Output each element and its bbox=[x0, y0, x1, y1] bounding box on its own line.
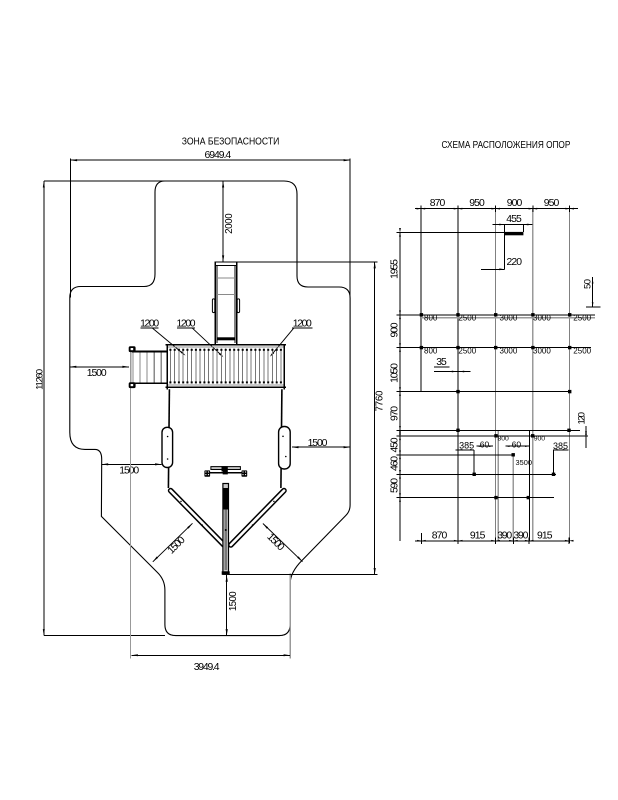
V beam left bbox=[171, 491, 224, 545]
V beam right bbox=[231, 491, 284, 545]
svg-text:3949.4: 3949.4 bbox=[194, 662, 220, 673]
svg-text:900: 900 bbox=[534, 436, 546, 443]
svg-text:800: 800 bbox=[498, 436, 510, 443]
dim 7760 tick lines bbox=[237, 261, 378, 263]
svg-text:60: 60 bbox=[512, 439, 522, 449]
svg-text:3000: 3000 bbox=[500, 314, 518, 323]
svg-text:2500: 2500 bbox=[573, 346, 591, 355]
svg-text:1500: 1500 bbox=[228, 591, 239, 611]
dim 2000 bbox=[222, 181, 224, 262]
grid col c2 thick bbox=[457, 209, 459, 541]
svg-text:2500: 2500 bbox=[573, 314, 591, 323]
grid col 455-right bbox=[522, 225, 524, 233]
grid col c3 grey bbox=[497, 431, 499, 541]
row2 line bbox=[400, 347, 591, 349]
dim 220 bbox=[481, 268, 504, 270]
platform right edge bbox=[281, 389, 282, 488]
grid col c1 stub bbox=[420, 533, 422, 543]
row1 grey line bbox=[421, 317, 595, 319]
svg-text:2500: 2500 bbox=[458, 346, 476, 355]
grid col c3 bbox=[495, 209, 497, 541]
dim 7760 bbox=[374, 262, 376, 575]
grid col c4 black bbox=[528, 430, 530, 541]
svg-text:915: 915 bbox=[537, 530, 553, 541]
dim 11260 bbox=[43, 181, 45, 636]
svg-text:950: 950 bbox=[544, 198, 560, 209]
dim 6949.4 extension lines bbox=[70, 159, 72, 298]
svg-text:6949.4: 6949.4 bbox=[204, 150, 231, 161]
svg-text:3000: 3000 bbox=[533, 346, 551, 355]
row1 support dots bbox=[420, 313, 423, 316]
svg-text:870: 870 bbox=[430, 198, 446, 209]
row4a dots bbox=[456, 429, 459, 432]
seesaw plan bbox=[211, 467, 241, 470]
grid col c5 bbox=[569, 209, 571, 543]
svg-text:455: 455 bbox=[506, 214, 522, 225]
svg-text:2000: 2000 bbox=[224, 213, 235, 234]
svg-text:220: 220 bbox=[507, 257, 523, 268]
row7 line bbox=[400, 497, 554, 499]
dim 1500 right bbox=[292, 446, 350, 448]
dim 6949.4 bbox=[71, 159, 351, 161]
grid col 455-left bbox=[503, 225, 505, 270]
svg-text:1500: 1500 bbox=[119, 466, 139, 477]
row1 line bbox=[400, 314, 595, 316]
center pole bbox=[223, 484, 229, 575]
walkway plan with slats bbox=[165, 344, 286, 346]
svg-text:50: 50 bbox=[583, 279, 594, 289]
svg-text:800: 800 bbox=[424, 346, 438, 355]
svg-text:385: 385 bbox=[459, 440, 474, 450]
svg-text:900: 900 bbox=[389, 322, 400, 337]
row3 dots bbox=[456, 390, 459, 393]
dim 1500 diag right bbox=[263, 524, 303, 562]
svg-text:1955: 1955 bbox=[389, 259, 400, 279]
grid col c1 bbox=[420, 209, 422, 392]
left col tick arrows bbox=[399, 232, 401, 237]
svg-text:3500: 3500 bbox=[516, 458, 532, 467]
row5 line bbox=[400, 454, 513, 456]
row6 line bbox=[400, 473, 556, 475]
grid col c4 grey bbox=[532, 209, 534, 541]
svg-text:1050: 1050 bbox=[389, 363, 400, 383]
grid col 3500-line bbox=[512, 455, 514, 541]
dim 1500 left bbox=[102, 463, 162, 465]
svg-text:450: 450 bbox=[389, 437, 400, 452]
row3 line bbox=[400, 391, 570, 393]
row2 support dots bbox=[420, 346, 423, 349]
svg-text:970: 970 bbox=[389, 406, 400, 421]
grid col 385R-drop bbox=[553, 450, 555, 475]
svg-text:3000: 3000 bbox=[500, 346, 518, 355]
handle right bbox=[279, 427, 291, 470]
svg-text:800: 800 bbox=[424, 314, 438, 323]
dim 3949.4 bbox=[131, 654, 290, 656]
dim 455 bbox=[493, 224, 533, 226]
svg-text:35: 35 bbox=[436, 357, 447, 368]
row5 dot bbox=[512, 453, 515, 456]
svg-text:7760: 7760 bbox=[374, 390, 385, 412]
beam 455 bar bbox=[504, 232, 523, 235]
platform left edge bbox=[168, 389, 169, 488]
svg-text:11260: 11260 bbox=[35, 369, 46, 390]
grid col dim-left bbox=[399, 232, 401, 541]
dim row top bbox=[415, 208, 578, 210]
svg-text:390: 390 bbox=[497, 530, 512, 541]
dim 1500 ladder bbox=[70, 366, 129, 368]
svg-text:1500: 1500 bbox=[87, 368, 107, 379]
ladder plan bbox=[130, 346, 132, 388]
safety zone outline bbox=[70, 181, 350, 636]
dim 1500 bottom bbox=[226, 575, 228, 635]
svg-text:60: 60 bbox=[480, 439, 490, 449]
handle left bbox=[162, 427, 173, 467]
svg-text:3000: 3000 bbox=[533, 314, 551, 323]
row6 dots bbox=[473, 473, 476, 476]
row4a line bbox=[400, 429, 580, 431]
svg-text:1500: 1500 bbox=[308, 438, 328, 449]
svg-text:590: 590 bbox=[389, 478, 400, 493]
svg-text:ЗОНА БЕЗОПАСНОСТИ: ЗОНА БЕЗОПАСНОСТИ bbox=[182, 136, 280, 147]
row4b line bbox=[400, 435, 588, 437]
top structure line bbox=[400, 231, 504, 233]
tower slide plan bbox=[214, 262, 216, 345]
grid col 385L-drop bbox=[473, 450, 475, 475]
svg-text:915: 915 bbox=[470, 530, 486, 541]
dim 3949.4 extensions bbox=[130, 352, 132, 659]
dim 50 bbox=[592, 277, 594, 307]
svg-text:390: 390 bbox=[513, 530, 528, 541]
svg-text:120: 120 bbox=[576, 412, 587, 425]
svg-text:950: 950 bbox=[469, 198, 485, 209]
svg-text:2500: 2500 bbox=[458, 314, 476, 323]
svg-text:СХЕМА РАСПОЛОЖЕНИЯ ОПОР: СХЕМА РАСПОЛОЖЕНИЯ ОПОР bbox=[441, 139, 570, 150]
svg-text:870: 870 bbox=[432, 530, 448, 541]
row4b dots bbox=[494, 434, 497, 437]
dim 1500 diag left bbox=[153, 523, 193, 562]
svg-text:900: 900 bbox=[507, 198, 523, 209]
row7 dots bbox=[494, 496, 497, 499]
dim row bottom bbox=[415, 540, 570, 542]
svg-text:460: 460 bbox=[389, 456, 400, 471]
